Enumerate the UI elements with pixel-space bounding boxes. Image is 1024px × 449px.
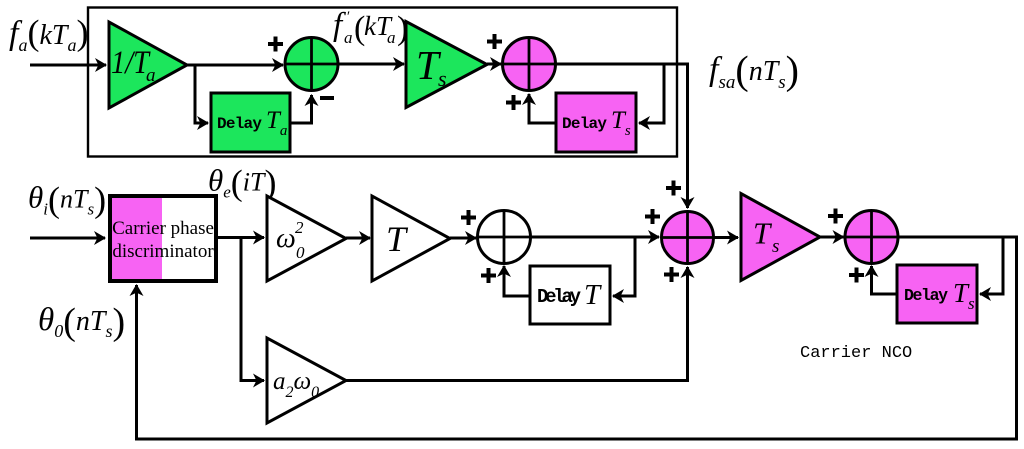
plus sign (summer1 left input) bbox=[268, 37, 283, 52]
svg-text:Delay: Delay bbox=[537, 286, 582, 308]
summer 1 (green circle) bbox=[285, 38, 338, 91]
gain block a2w0 (white triangle) bbox=[267, 338, 346, 423]
svg-text:a: a bbox=[344, 28, 353, 47]
minus sign bbox=[320, 96, 334, 100]
plus sign (summer2 left input) bbox=[487, 34, 502, 49]
wire: input fa bbox=[30, 64, 106, 67]
delay block Delay Ts (magenta) bbox=[556, 93, 636, 152]
delay block Delay Ta (green) bbox=[211, 93, 290, 152]
summer 5 (right magenta circle) bbox=[845, 211, 898, 264]
wire: Delay Ts to right summer bottom bbox=[872, 266, 898, 294]
plus sign (center summer bottom input) bbox=[664, 267, 679, 282]
plus sign (right summer left input) bbox=[828, 209, 843, 224]
gain block 1/Ta (green triangle) bbox=[109, 22, 187, 108]
plus sign (summer2 bottom input) bbox=[506, 95, 521, 110]
wire: branch down to Delay Ta bbox=[195, 65, 208, 123]
delay block Delay T (white) bbox=[530, 266, 610, 324]
wire: center summer to Ts gain bbox=[714, 236, 739, 239]
svg-text:discriminator: discriminator bbox=[112, 241, 214, 262]
carrier phase discriminator block bbox=[110, 196, 216, 281]
wire: Ts to summer2 bbox=[487, 63, 501, 66]
wire: T to white summer bbox=[450, 237, 476, 240]
wire: w0^2 to T bbox=[346, 237, 370, 240]
wire: branch down to Delay T bbox=[613, 237, 635, 296]
svg-text:θ0(nTs): θ0(nTs) bbox=[38, 301, 125, 343]
svg-text:Delay: Delay bbox=[217, 115, 262, 133]
wire: Delay Ts to summer2 bottom bbox=[529, 94, 556, 123]
plus sign (white summer bottom input) bbox=[481, 268, 496, 283]
summer 2 (magenta circle) bbox=[503, 38, 556, 91]
svg-text:0: 0 bbox=[296, 243, 305, 262]
svg-text:T: T bbox=[386, 219, 409, 259]
svg-text:Carrier phase: Carrier phase bbox=[112, 218, 214, 239]
wire: white summer to center summer bbox=[531, 236, 660, 239]
svg-text:a: a bbox=[146, 65, 156, 86]
gain block Ts (magenta triangle) bbox=[741, 194, 820, 281]
wire: Delay T to white summer bottom bbox=[504, 266, 530, 296]
svg-text:2: 2 bbox=[295, 218, 304, 237]
svg-text:s: s bbox=[772, 236, 779, 257]
svg-text:ω: ω bbox=[276, 223, 296, 254]
wire: a2w0 output to center summer bottom bbox=[346, 267, 688, 381]
svg-text:Carrier NCO: Carrier NCO bbox=[800, 344, 912, 363]
svg-text:a: a bbox=[387, 28, 396, 47]
wire: right summer output, right side down, bottom feedback to discriminator bbox=[137, 237, 1017, 439]
gain block T (white triangle) bbox=[372, 196, 450, 281]
summer 3 (white circle) bbox=[478, 211, 531, 264]
wire: summer1 to Ts gain bbox=[338, 63, 404, 66]
wire: branch down to a2w0 bbox=[241, 238, 264, 381]
wire: discriminator output to w0^2 bbox=[216, 236, 264, 239]
wire: branch down to Delay Ts right bbox=[980, 237, 1003, 294]
gain block w0^2 (white triangle) bbox=[267, 196, 346, 281]
wire: summer2 output right then down into middle summer bbox=[556, 64, 688, 208]
wire: 1/Ta to summer bbox=[187, 64, 283, 67]
gain block Ts (green triangle) bbox=[406, 22, 487, 108]
plus sign (white summer left input) bbox=[461, 210, 476, 225]
wire: Delay Ta to summer bottom bbox=[290, 95, 312, 123]
svg-text:T: T bbox=[753, 216, 773, 251]
svg-text:T: T bbox=[584, 279, 602, 311]
outer box of accumulator block bbox=[88, 8, 677, 157]
wire: Ts to right summer bbox=[820, 236, 844, 239]
plus sign (right summer bottom input) bbox=[849, 268, 864, 283]
svg-text:Delay: Delay bbox=[904, 286, 948, 305]
plus sign (center summer top input) bbox=[666, 181, 681, 196]
summer 4 (center magenta circle) bbox=[662, 212, 714, 264]
svg-text:Delay: Delay bbox=[562, 115, 607, 133]
wire: input theta_i bbox=[30, 237, 105, 240]
delay block Delay Ts (magenta, right) bbox=[897, 265, 977, 323]
svg-text:s: s bbox=[438, 66, 447, 91]
label fa'(kTa) bbox=[333, 7, 408, 47]
plus sign (center summer left input) bbox=[645, 209, 660, 224]
wire: feedback tap down to Delay Ts bbox=[639, 64, 664, 123]
